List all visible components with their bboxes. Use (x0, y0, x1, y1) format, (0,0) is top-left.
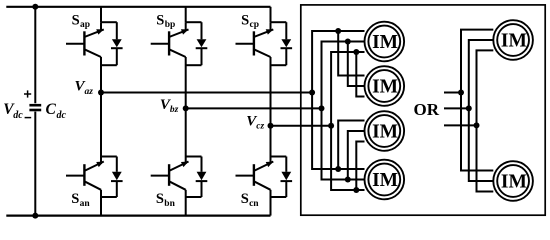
induction motor IM1 (365, 22, 405, 62)
svg-text:IM: IM (501, 30, 527, 51)
label S_cn (241, 191, 260, 209)
svg-text:dc: dc (13, 110, 23, 121)
wire: right bus phase 1 (IM5 lead to IM6 lead) (461, 30, 493, 171)
freewheeling diode of Scp (271, 22, 293, 65)
junction: tap on IM1 lead 1 (335, 28, 341, 34)
svg-text:ap: ap (80, 20, 90, 30)
junction: phase 2 stub to right bus (466, 105, 472, 111)
svg-text:dc: dc (57, 110, 67, 121)
capacitor C_dc (29, 105, 41, 110)
wire: phase c output line (271, 125, 332, 127)
svg-text:S: S (72, 12, 80, 28)
wire: leg c top connection to positive rail (270, 7, 272, 22)
wire: tap IM1 lead 2 to IM2 lead 2 (348, 42, 365, 87)
label + polarity (24, 90, 31, 97)
transistor Sbn (151, 157, 189, 190)
svg-text:S: S (156, 191, 164, 207)
junction: tap on IM1 lead 3 (353, 49, 359, 55)
label V_az (75, 79, 94, 97)
freewheeling diode of Sbn (186, 157, 208, 198)
wire: phase 1 feed stub (right group) (444, 92, 461, 94)
node V_bz junction (183, 105, 189, 111)
transistor Scp (236, 22, 274, 57)
induction motor IM4 (365, 160, 405, 200)
transistor Scn (236, 157, 274, 190)
junction: tap on IM4 lead 2 (345, 177, 351, 183)
wire: leg c bottom connection to negative rail (270, 190, 272, 216)
wire: C_dc top lead (34, 7, 36, 103)
svg-text:az: az (85, 87, 94, 97)
transistor Sbp (151, 22, 189, 57)
induction motor IM6 (493, 161, 533, 201)
wire: tap IM3 lead 2 to IM4 lead 2 (348, 131, 365, 180)
wire: right bus phase 3 (IM5 lead to IM6 lead) (477, 50, 494, 191)
junction: phase 1 stub to right bus (458, 90, 464, 96)
label V_bz (160, 97, 179, 115)
wire: tap IM3 lead 1 to IM4 lead 1 (338, 121, 364, 170)
transistor Sap (66, 22, 104, 57)
label S_cp (241, 12, 259, 30)
junction: C_dc / positive rail (32, 4, 38, 10)
svg-text:C: C (46, 101, 57, 118)
wire: phase a bus (motor IM1 lead 1 to motor IM4 lead 1) (312, 31, 364, 169)
wire: leg b top connection to positive rail (185, 7, 187, 22)
wire: phase a output line (101, 92, 312, 94)
junction: tap on IM4 lead 1 (335, 166, 341, 172)
svg-text:bn: bn (164, 199, 175, 209)
label - polarity (25, 117, 32, 119)
freewheeling diode of Sbp (186, 22, 208, 65)
wire: phase b bus (motor IM1 lead 2 to motor IM4 lead 2) (322, 42, 365, 180)
wire: C_dc bottom lead (34, 112, 36, 216)
label S_bp (156, 12, 175, 30)
svg-text:S: S (71, 191, 79, 207)
wire: leg a upper-to-node segment (100, 57, 102, 93)
svg-text:OR: OR (414, 100, 440, 119)
junction: phase c to motor bus (328, 123, 334, 129)
wire: DC positive rail (6, 6, 270, 8)
wire: phase 2 feed stub (right group) (444, 107, 469, 109)
junction: phase 3 stub to right bus (474, 122, 480, 128)
svg-text:bz: bz (170, 105, 179, 115)
svg-text:cz: cz (256, 122, 264, 132)
wire: leg a node-to-lower segment (100, 93, 102, 157)
transistor San (66, 157, 104, 190)
motor group enclosure box (301, 5, 545, 215)
svg-text:S: S (241, 12, 249, 28)
wire: leg c node-to-lower segment (270, 126, 272, 157)
node V_cz junction (268, 123, 274, 129)
junction: phase a to motor bus (309, 90, 315, 96)
label S_bn (156, 191, 176, 209)
wire: tap IM3 lead 3 to IM4 lead 3 (356, 142, 364, 191)
junction: C_dc / negative rail (32, 213, 38, 219)
label S_an (71, 191, 90, 209)
label V_cz (246, 114, 264, 132)
wire: leg b bottom connection to negative rail (185, 190, 187, 216)
wire: phase c bus (motor IM1 lead 3 to motor IM4 lead 3) (331, 52, 364, 190)
svg-text:IM: IM (372, 32, 398, 53)
induction motor IM3 (365, 111, 405, 151)
label V_dc (3, 101, 23, 121)
freewheeling diode of Sap (101, 22, 123, 65)
svg-text:cp: cp (250, 20, 260, 30)
wire: phase b output line (186, 107, 322, 109)
induction motor IM5 (493, 20, 533, 60)
induction motor IM2 (365, 66, 405, 106)
svg-text:IM: IM (372, 170, 398, 191)
junction: tap on IM1 lead 2 (345, 39, 351, 45)
svg-text:IM: IM (372, 76, 398, 97)
node V_az junction (98, 90, 104, 96)
svg-text:S: S (156, 12, 164, 28)
wire: right bus phase 2 (IM5 lead to IM6 lead) (469, 40, 494, 181)
wire: leg a bottom connection to negative rail (100, 190, 102, 216)
junction: phase b to motor bus (319, 105, 325, 111)
svg-text:cn: cn (249, 199, 259, 209)
svg-text:IM: IM (501, 171, 527, 192)
wire: tap IM1 lead 1 to IM2 lead 1 (338, 31, 364, 76)
wire: leg c upper-to-node segment (270, 57, 272, 126)
freewheeling diode of San (101, 157, 123, 198)
svg-text:bp: bp (165, 20, 176, 30)
wire: phase 3 feed stub (right group) (444, 124, 477, 126)
label S_ap (72, 12, 90, 30)
label C_dc (46, 101, 67, 121)
wire: leg b node-to-lower segment (185, 108, 187, 156)
wire: tap IM1 lead 3 to IM2 lead 3 (356, 52, 364, 97)
wire: leg a top connection to positive rail (100, 7, 102, 22)
wire: leg b upper-to-node segment (185, 57, 187, 108)
wire: DC negative rail (6, 215, 270, 217)
svg-text:IM: IM (372, 121, 398, 142)
svg-text:an: an (80, 199, 91, 209)
freewheeling diode of Scn (271, 157, 293, 198)
junction: tap on IM4 lead 3 (353, 187, 359, 193)
svg-text:S: S (241, 191, 249, 207)
